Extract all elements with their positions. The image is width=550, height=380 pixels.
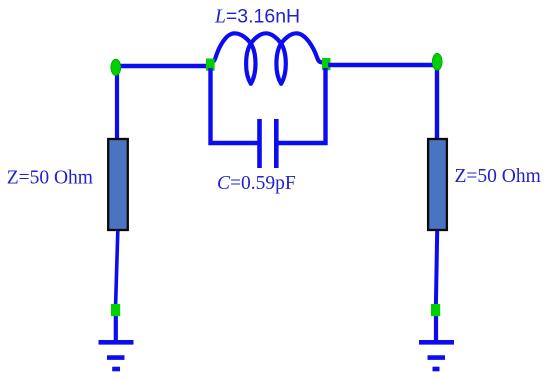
wire: port P2 down to transmission line TL2 [435,66,439,139]
wire: port P1 down to transmission line TL1 [115,67,119,139]
svg-text:C=0.59pF: C=0.59pF [217,173,296,194]
svg-text:Z=50 Ohm: Z=50 Ohm [7,168,93,189]
svg-text:Z=50 Ohm: Z=50 Ohm [455,166,541,187]
node P1 (green ellipse, left port) [111,59,121,75]
wire: input port P1 to inductor left terminal [113,64,212,68]
pin node (green square) on left ground wire [111,304,120,316]
wire: capacitor C1 right plate across and up to L1 right terminal [278,68,326,143]
ground GND1 [99,342,134,369]
wire: TL2 bottom to ground GND2 [436,231,437,305]
wire: TL1 bottom to ground GND1 [116,231,118,305]
terminal node (green square) at L1 left pin [206,59,215,71]
ground GND2 [419,342,454,369]
capacitor C1 left plate [257,119,262,168]
node P2 (green ellipse, right port) [432,53,442,70]
wire: L1 left terminal down and across to capacitor C1 left plate [211,68,259,143]
transmission line TL1 (blue rectangle) [108,139,128,230]
transmission line TL2 (blue rectangle) [428,139,447,230]
svg-text:L=3.16nH: L=3.16nH [214,5,300,27]
inductor L1 coil [210,33,323,84]
pin node (green square) on right ground wire [431,304,440,316]
capacitor C1 right plate [274,119,279,168]
wire: inductor right terminal to output port P2 [328,63,440,67]
terminal node (green square) at L1 right pin [322,58,330,70]
